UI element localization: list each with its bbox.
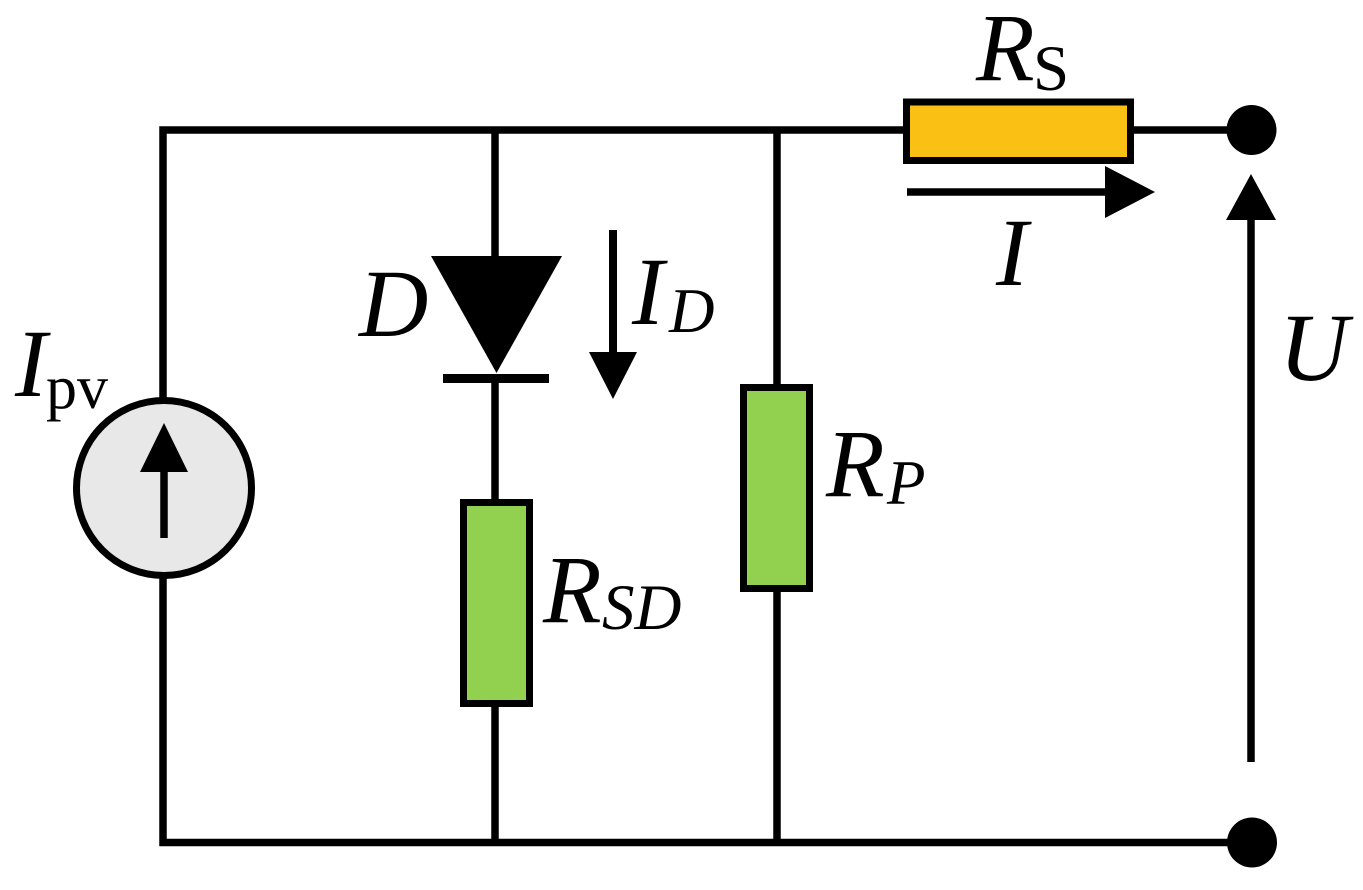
- resistor RS (series, orange): [907, 102, 1131, 161]
- current source Ipv circle: [77, 401, 252, 576]
- wire diode branch top: from top rail down to diode: [491, 127, 499, 263]
- current ID arrow shaft: [609, 230, 617, 357]
- svg-text:I: I: [995, 199, 1032, 306]
- svg-text:D: D: [357, 250, 428, 357]
- svg-text:P: P: [886, 448, 925, 518]
- resistor RP (shunt, green): [744, 388, 810, 589]
- current I arrow shaft: [907, 188, 1110, 196]
- wire bottom rail: from current source bottom, down and across to right terminal: [163, 574, 1252, 843]
- svg-text:R: R: [542, 536, 602, 643]
- svg-text:R: R: [825, 410, 885, 517]
- diode D cathode bar: [443, 374, 549, 383]
- svg-text:I: I: [631, 238, 668, 345]
- current I arrowhead: [1105, 166, 1155, 218]
- wire RS to output terminal: [1134, 126, 1252, 134]
- current ID arrowhead: [589, 352, 637, 399]
- voltage U arrowhead: [1226, 174, 1276, 220]
- wire RP to bottom rail: [773, 588, 781, 845]
- svg-text:U: U: [1279, 294, 1354, 401]
- diode D triangle: [431, 256, 562, 373]
- wire RP branch top: [773, 127, 781, 391]
- svg-text:D: D: [668, 276, 715, 346]
- current source arrow shaft: [160, 468, 168, 538]
- node terminal dot bottom right: [1227, 818, 1277, 868]
- wire RSD to bottom rail: [491, 703, 499, 845]
- svg-text:R: R: [975, 0, 1035, 101]
- svg-text:S: S: [1033, 33, 1069, 105]
- wire top-left: top rail and left vertical down to current source: [163, 130, 907, 402]
- svg-text:pv: pv: [46, 354, 108, 422]
- resistor RSD (green): [464, 503, 530, 704]
- wire diode to RSD: [491, 375, 499, 505]
- voltage U arrow shaft: [1247, 218, 1255, 762]
- svg-text:SD: SD: [602, 572, 681, 644]
- node terminal dot top right: [1227, 105, 1277, 155]
- current source arrowhead: [140, 423, 188, 472]
